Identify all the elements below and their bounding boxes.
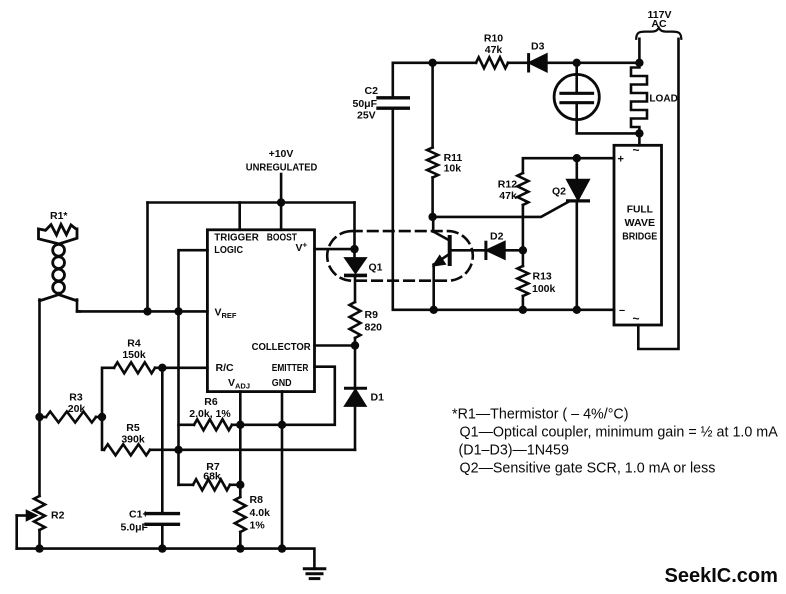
svg-text:20k: 20k (68, 403, 86, 415)
node D2 R13 (519, 246, 527, 254)
wire D1 anode down to R5 line (354, 406, 357, 450)
load resistor meander (631, 63, 647, 134)
wire C2 down to emitter rail (393, 108, 614, 310)
resistor R6 (194, 419, 232, 430)
wire R/C line (155, 366, 207, 369)
svg-text:C1+: C1+ (129, 509, 149, 521)
svg-text:47k: 47k (499, 190, 517, 202)
svg-text:R9: R9 (365, 309, 379, 321)
svg-text:R13: R13 (533, 271, 552, 283)
svg-text:~: ~ (633, 312, 640, 326)
wire R2 bottom lead (38, 530, 41, 549)
svg-text:Q1—Optical coupler, minimum ga: Q1—Optical coupler, minimum gain = ½ at … (460, 425, 779, 441)
wire R4 left corner down to R5 (102, 368, 114, 450)
svg-text:D1: D1 (371, 392, 385, 404)
svg-text:47k: 47k (485, 44, 503, 56)
node rail R8 (236, 544, 244, 552)
wire C1 bottom lead (161, 524, 164, 548)
wire R9 to collector node (354, 338, 357, 346)
node Q2 cathode rail (573, 306, 581, 314)
node R6 VADJ (236, 421, 244, 429)
svg-text:AC: AC (651, 18, 667, 30)
svg-text:50μF: 50μF (353, 98, 378, 110)
resistor R7 (193, 479, 230, 490)
svg-text:V+: V+ (296, 241, 308, 255)
svg-text:+10V: +10V (269, 148, 294, 160)
wire BOOST pin stub (280, 203, 283, 230)
wire bottom ground rail (17, 549, 315, 569)
117V AC brace (636, 28, 681, 39)
svg-text:R8: R8 (250, 494, 264, 506)
svg-text:1%: 1% (250, 520, 266, 532)
wire Q2 anode lead (575, 158, 578, 180)
wire lamp top lead (575, 63, 578, 94)
svg-text:2.0k, 1%: 2.0k, 1% (189, 408, 231, 420)
node R13 bottom rail (519, 306, 527, 314)
svg-text:TRIGGER: TRIGGER (214, 232, 259, 244)
wire R12 to R13 (522, 205, 525, 266)
svg-text:10k: 10k (444, 163, 462, 175)
wire load bottom to bridge top (638, 133, 641, 145)
node R11 top (428, 59, 436, 67)
resistor R13 (517, 266, 528, 296)
svg-text:25V: 25V (357, 110, 376, 122)
resistor R12 (517, 173, 528, 205)
svg-text:*R1—Thermistor ( – 4%/°C): *R1—Thermistor ( – 4%/°C) (452, 407, 629, 423)
node collector R9 D1 (351, 341, 359, 349)
diode D1 (346, 387, 366, 390)
svg-text:820: 820 (365, 322, 383, 334)
svg-text:BRIDGE: BRIDGE (622, 231, 657, 243)
svg-text:R6: R6 (204, 396, 218, 408)
full wave bridge box U2 (614, 145, 662, 325)
svg-text:R3: R3 (69, 392, 83, 404)
wire EMITTER pin loop (232, 367, 335, 425)
svg-text:SeekIC.com: SeekIC.com (665, 565, 778, 587)
wire AC left lead (638, 39, 641, 63)
node R/C C1 (158, 364, 166, 372)
svg-text:FULL: FULL (627, 204, 654, 216)
svg-text:Q2: Q2 (552, 186, 566, 198)
svg-text:68k: 68k (203, 471, 221, 483)
svg-text:COLLECTOR: COLLECTOR (252, 341, 311, 353)
node LED anode (350, 245, 358, 253)
ground (304, 567, 325, 570)
potentiometer R2 (34, 496, 45, 530)
svg-text:R12: R12 (498, 179, 517, 191)
resistor R9 (350, 302, 361, 338)
svg-text:VADJ: VADJ (228, 377, 250, 391)
svg-text:R2: R2 (51, 510, 65, 522)
svg-text:R1*: R1* (50, 210, 68, 222)
node Q2 anode (573, 154, 581, 162)
svg-text:D2: D2 (490, 231, 504, 243)
wire bridge plus line to R12 top (523, 158, 614, 173)
wire rail left vertical to VREF line (146, 203, 149, 312)
node emitter GND line (278, 421, 286, 429)
svg-text:BOOST: BOOST (267, 232, 298, 244)
resistor R10 (476, 57, 508, 68)
resistor R8 (235, 497, 246, 532)
resistor R11 (427, 148, 438, 178)
wire R6 left lead to vertical B (179, 423, 195, 426)
wire TRIGGER pin stub (238, 203, 241, 230)
svg-text:390k: 390k (121, 434, 145, 446)
node R7 VADJ (236, 481, 244, 489)
capacitor C1 (146, 512, 178, 515)
optocoupler dashed outline (327, 231, 473, 281)
wire collector node down to D1 (354, 346, 357, 389)
svg-text:WAVE: WAVE (625, 217, 656, 229)
node rail GND pin (278, 544, 286, 552)
svg-text:5.0μF: 5.0μF (121, 522, 149, 534)
node +10V boost (277, 198, 285, 206)
wire R8 bottom lead (239, 532, 242, 549)
svg-text:R4: R4 (127, 338, 141, 350)
wire C1 branch vertical (161, 368, 164, 514)
wire R10 to D3 (508, 61, 529, 64)
neon lamp (554, 74, 599, 119)
capacitor C2 (378, 96, 408, 99)
svg-text:100k: 100k (532, 283, 556, 295)
R2 wiper arrow (17, 514, 29, 517)
svg-text:VREF: VREF (215, 307, 237, 321)
wire V+ pin to LED node (315, 248, 355, 251)
wire VREF line from thermistor (77, 310, 207, 313)
wire R3 right lead (96, 416, 102, 419)
wire R11 bottom to gate node (431, 178, 434, 217)
svg-text:R/C: R/C (216, 362, 235, 374)
wire Q2 cathode lead (575, 201, 578, 310)
svg-text:C2: C2 (365, 85, 379, 97)
node gate R11 (428, 213, 436, 221)
LED Q1 left half (353, 249, 356, 258)
wire thermistor right leg to VREF line (77, 300, 80, 312)
wire top rail C2 corner to R10 (393, 63, 476, 98)
svg-text:LOAD: LOAD (649, 93, 678, 105)
svg-text:LOGIC: LOGIC (214, 244, 243, 256)
wire R3 left lead (40, 416, 47, 419)
wire D2 to R12/R13 node (504, 249, 523, 252)
wire R13 bottom (522, 296, 525, 310)
phototransistor Q1 right half (432, 217, 435, 232)
wire R7 leads (179, 483, 194, 486)
svg-text:R5: R5 (126, 422, 140, 434)
wire LED cathode to R9 (354, 275, 357, 302)
resistor R4 (114, 362, 155, 373)
resistor R5 (104, 444, 150, 455)
node R5 vertical B (174, 446, 182, 454)
svg-text:D3: D3 (531, 41, 545, 53)
wire rail right vertical to LED anode (353, 203, 356, 250)
node load top (635, 59, 643, 67)
resistor R3 (46, 412, 96, 423)
svg-text:(D1–D3)—1N459: (D1–D3)—1N459 (459, 443, 570, 459)
node R3 left (35, 413, 43, 421)
node lamp top (573, 59, 581, 67)
node Q1 emitter rail (430, 306, 438, 314)
wire R5 line to D1 (150, 448, 355, 451)
node load bottom (635, 129, 643, 137)
wire phototransistor base to D2 (450, 249, 486, 252)
svg-text:GND: GND (272, 377, 292, 389)
svg-text:150k: 150k (122, 349, 146, 361)
diode D3 (527, 55, 530, 71)
wire AC right lead down and to bridge bottom (638, 39, 678, 349)
node VREF vertical B (174, 307, 182, 315)
wire R11 branch (431, 63, 434, 148)
wire lamp bottom lead (577, 103, 640, 134)
wire +10V vertical (280, 174, 283, 203)
node R3 right (98, 413, 106, 421)
thermistor R1 bottom vee (40, 295, 78, 301)
diode D2 (484, 242, 487, 258)
+10V supply rail (148, 201, 355, 204)
svg-text:~: ~ (633, 143, 640, 157)
thermistor R1 crown (39, 224, 78, 244)
IC box U1 (207, 230, 314, 392)
thermistor R1 beads (53, 244, 65, 256)
svg-text:UNREGULATED: UNREGULATED (246, 162, 318, 174)
node VREF rail left (143, 307, 151, 315)
svg-text:EMITTER: EMITTER (272, 362, 309, 374)
node rail C1 (158, 544, 166, 552)
svg-text:+: + (618, 154, 624, 166)
wire VADJ pin vertical (239, 392, 242, 497)
node rail R2 (35, 544, 43, 552)
svg-text:R10: R10 (484, 33, 503, 45)
wire GND pin vertical (281, 392, 284, 549)
wire LOGIC pin loop / vertical B (179, 250, 208, 485)
wire gate line to Q2 (433, 202, 569, 217)
wire D3 to load top (546, 61, 639, 64)
wire thermistor left leg down left vertical (38, 300, 41, 497)
wire COLLECTOR pin (315, 344, 356, 347)
wire R2 wiper down to rail (15, 516, 18, 549)
svg-text:Q2—Sensitive gate SCR, 1.0 mA: Q2—Sensitive gate SCR, 1.0 mA or less (460, 461, 716, 477)
svg-text:4.0k: 4.0k (250, 507, 271, 519)
SCR Q2 (568, 180, 589, 199)
svg-text:–: – (619, 305, 625, 317)
svg-text:Q1: Q1 (369, 262, 383, 274)
